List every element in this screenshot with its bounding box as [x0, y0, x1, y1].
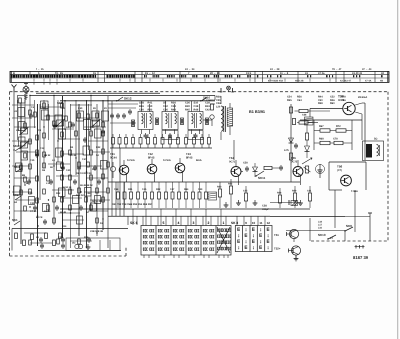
svg-text:R67: R67 — [319, 125, 324, 128]
svg-text:19 b: 19 b — [246, 72, 252, 75]
svg-text:SK3: SK3 — [14, 165, 20, 169]
switch SK10b — [200, 96, 211, 102]
svg-text:28.5mA: 28.5mA — [358, 96, 367, 99]
electrolytic C80 — [316, 164, 325, 178]
chassis border dashed bottom-right — [311, 240, 388, 242]
svg-text:12: 12 — [267, 221, 271, 225]
svg-text:3B 52: 3B 52 — [44, 154, 51, 157]
svg-text:11 ← 8: 11 ← 8 — [280, 72, 289, 75]
svg-text:46: 46 — [50, 166, 53, 169]
svg-text:38 52 38: 38 52 38 — [62, 186, 72, 189]
svg-text:C64: C64 — [297, 99, 302, 102]
output filter box — [12, 229, 128, 251]
svg-text:00 38: 00 38 — [70, 154, 77, 157]
svg-text:5Ω: 5Ω — [374, 138, 377, 141]
svg-text:78 ← 47: 78 ← 47 — [332, 68, 342, 71]
svg-text:C15: C15 — [30, 159, 35, 162]
IF label columns — [139, 102, 210, 112]
svg-text:R42: R42 — [148, 108, 153, 111]
svg-text:0.7mA: 0.7mA — [127, 159, 135, 162]
svg-text:f ← 15: f ← 15 — [36, 68, 44, 71]
svg-text:L9: L9 — [52, 159, 55, 162]
svg-text:C9: C9 — [38, 129, 42, 132]
switch SK1 — [12, 218, 20, 225]
output terminals — [355, 245, 365, 249]
svg-text:8.79 B3B 45A: 8.79 B3B 45A — [268, 79, 283, 82]
svg-text:3: 3 — [193, 221, 195, 225]
transistor T1 labels — [110, 152, 135, 162]
bus second rail — [60, 100, 215, 102]
wire IF out — [203, 119, 212, 121]
svg-text:C78: C78 — [333, 138, 338, 141]
tuning scale band — [10, 71, 389, 82]
svg-text:R58: R58 — [277, 192, 282, 195]
jack wiring — [270, 190, 372, 241]
svg-text:T52+: T52+ — [274, 247, 281, 251]
table SK6 pins — [144, 255, 228, 258]
transistor T51 — [287, 229, 299, 242]
svg-text:L18: L18 — [318, 221, 323, 224]
wire — [286, 230, 345, 232]
tuner small parts — [13, 95, 109, 245]
svg-text:20 ← 30: 20 ← 30 — [210, 72, 220, 75]
svg-text:R4: R4 — [70, 146, 74, 149]
transistor T2 labels — [148, 152, 171, 162]
svg-text:R51 T52 T58 F588 R55 R54 R58 R: R51 T52 T58 F588 R55 R54 R58 R57 — [112, 203, 153, 206]
switch SK12 — [116, 97, 132, 102]
svg-text:56 51 48: 56 51 48 — [92, 200, 102, 203]
svg-text:52: 52 — [86, 211, 89, 214]
svg-text:T57: T57 — [338, 95, 344, 99]
antenna — [12, 85, 17, 119]
svg-text:R22: R22 — [96, 146, 101, 149]
amp label columns — [216, 96, 346, 109]
svg-text:SK12: SK12 — [124, 97, 132, 101]
svg-text:0C75: 0C75 — [291, 160, 298, 163]
IF transformer S11 — [188, 101, 203, 140]
tuner filter boxes — [14, 96, 109, 225]
chassis border dashed bottom-left — [10, 255, 127, 257]
svg-text:ET: ET — [330, 237, 334, 240]
svg-text:C8 48: C8 48 — [44, 210, 51, 213]
svg-text:C44: C44 — [86, 192, 91, 195]
IF inter-stage parts — [108, 108, 209, 127]
svg-text:C21: C21 — [30, 202, 35, 205]
table feed wires — [128, 209, 265, 226]
preamp coupling network — [284, 104, 330, 165]
svg-text:4: 4 — [178, 221, 180, 225]
svg-text:SK2: SK2 — [13, 193, 19, 197]
table SK6 header — [130, 221, 225, 225]
interstage parts — [264, 165, 293, 171]
driver resistors R67 R72 — [300, 120, 362, 150]
svg-text:C58: C58 — [243, 162, 248, 165]
transistor T41 — [119, 160, 129, 182]
svg-text:R6: R6 — [42, 169, 46, 172]
wire mixer-IF — [108, 103, 138, 105]
svg-text:24 ← 28: 24 ← 28 — [270, 68, 280, 71]
svg-text:C55: C55 — [243, 190, 248, 193]
svg-text:8mA: 8mA — [196, 159, 202, 162]
svg-text:48: 48 — [36, 236, 39, 239]
IF transformer S9 — [162, 101, 178, 140]
svg-text:T56: T56 — [337, 165, 343, 169]
svg-text:24 ← 34: 24 ← 34 — [185, 68, 195, 71]
IF bias resistor row — [110, 134, 212, 148]
output vertical rail — [364, 103, 366, 160]
oscillator coil S13 — [221, 96, 233, 140]
svg-text:8F45: 8F45 — [186, 156, 193, 160]
AGC bus — [60, 208, 310, 210]
svg-text:9: 9 — [245, 221, 247, 225]
svg-text:C20: C20 — [28, 192, 33, 195]
svg-text:C7 84: C7 84 — [30, 210, 37, 213]
transistor T42 — [147, 159, 157, 182]
svg-text:R28 52: R28 52 — [76, 194, 84, 197]
svg-text:C40: C40 — [66, 169, 71, 172]
svg-text:15 ← 12: 15 ← 12 — [145, 72, 155, 75]
svg-text:41 40 41: 41 40 41 — [352, 72, 363, 75]
svg-text:T51: T51 — [274, 233, 279, 237]
tuner section rail wires — [12, 96, 124, 248]
svg-text:C68: C68 — [302, 114, 307, 117]
svg-text:C34: C34 — [90, 126, 95, 129]
top supply bus — [30, 95, 215, 97]
svg-text:C61: C61 — [307, 190, 312, 193]
svg-text:28: 28 — [93, 107, 96, 110]
svg-text:R52: R52 — [156, 188, 161, 191]
svg-text:L17: L17 — [318, 224, 323, 227]
svg-text:f ← 15: f ← 15 — [55, 72, 63, 75]
svg-text:R46: R46 — [194, 108, 199, 111]
switch SK5 — [57, 102, 63, 105]
svg-text:4BB 2B: 4BB 2B — [295, 79, 304, 82]
svg-text:SK 6: SK 6 — [130, 221, 138, 225]
transistor T54 — [229, 156, 241, 185]
diode GR1 — [110, 162, 115, 178]
transistor T56 — [329, 162, 366, 193]
table SK8-12 header — [231, 221, 270, 225]
svg-text:0.7mA: 0.7mA — [163, 159, 171, 162]
T57 base wire — [310, 108, 343, 110]
svg-text:48 46 38 52: 48 46 38 52 — [80, 184, 93, 187]
svg-text:S4: S4 — [14, 201, 18, 204]
switch feed bus — [108, 215, 270, 217]
svg-text:R8 C2 R9 C26: R8 C2 R9 C26 — [76, 172, 92, 175]
svg-text:SK9: SK9 — [346, 224, 352, 228]
svg-text:SK5: SK5 — [57, 102, 63, 105]
chassis border dashed left — [9, 92, 11, 256]
IF transformer S7 — [138, 101, 153, 139]
svg-text:R68: R68 — [319, 138, 324, 141]
svg-text:R45: R45 — [185, 108, 190, 111]
svg-text:C56: C56 — [114, 188, 119, 191]
svg-text:29: 29 — [104, 107, 107, 110]
capacitor C58 — [262, 200, 300, 211]
svg-text:0C71: 0C71 — [229, 160, 236, 163]
svg-text:C47: C47 — [170, 188, 175, 191]
svg-text:2: 2 — [208, 221, 210, 225]
svg-text:C45: C45 — [142, 188, 147, 191]
switch SK9 — [344, 224, 355, 241]
svg-text:47 ← 44: 47 ← 44 — [362, 68, 372, 71]
coupling cap C58 — [241, 162, 249, 173]
loudspeaker — [363, 138, 384, 161]
volume control chain — [298, 114, 313, 178]
switch SK2 — [13, 193, 21, 200]
svg-text:1: 1 — [223, 221, 225, 225]
svg-text:405μF: 405μF — [262, 208, 269, 211]
emitter bus — [108, 181, 300, 183]
pickup head — [206, 99, 215, 126]
svg-text:8B: 8B — [22, 174, 25, 177]
audio bias resistors — [208, 179, 312, 208]
transistor T57 — [338, 95, 367, 115]
switch table SK8-12 — [235, 226, 272, 252]
svg-text:R44: R44 — [171, 108, 176, 111]
svg-text:11: 11 — [259, 221, 263, 225]
svg-text:43 2B3 47: 43 2B3 47 — [340, 79, 352, 82]
svg-text:54: 54 — [96, 154, 99, 157]
svg-text:C49: C49 — [198, 188, 203, 191]
svg-text:C37: C37 — [82, 158, 87, 161]
svg-text:U1: U1 — [14, 110, 18, 113]
svg-text:5: 5 — [163, 221, 165, 225]
switch SK3 — [14, 165, 22, 172]
transistor T3 labels — [186, 152, 202, 162]
svg-text:R51: R51 — [128, 188, 133, 191]
svg-text:SK11: SK11 — [258, 176, 266, 180]
page right edge — [397, 0, 399, 339]
svg-text:8187 39: 8187 39 — [353, 255, 369, 260]
svg-text:R60: R60 — [330, 102, 335, 105]
svg-text:R24: R24 — [92, 168, 97, 171]
svg-text:SK4: SK4 — [13, 144, 19, 148]
scale legend text above band — [36, 68, 372, 71]
svg-text:R55: R55 — [287, 99, 292, 102]
svg-text:84 C8: 84 C8 — [36, 216, 43, 219]
transistor T55 — [291, 156, 303, 185]
dial lamp — [220, 86, 234, 92]
svg-text:L20: L20 — [216, 105, 221, 108]
switch SK4 — [13, 144, 21, 151]
svg-text:R58: R58 — [318, 102, 323, 105]
svg-text:T54: T54 — [229, 156, 234, 160]
svg-text:R18: R18 — [84, 236, 89, 239]
svg-text:SK10: SK10 — [318, 233, 326, 237]
svg-text:B: B — [13, 72, 15, 75]
svg-text:T-56A: T-56A — [351, 190, 358, 193]
svg-text:R54: R54 — [184, 188, 189, 191]
svg-text:C3: C3 — [31, 106, 35, 109]
switch SK10 — [318, 233, 336, 240]
svg-text:0C72: 0C72 — [338, 99, 345, 102]
svg-text:R12: R12 — [56, 192, 61, 195]
svg-text:R52: R52 — [228, 183, 233, 186]
transistor T52 — [289, 246, 301, 261]
svg-text:(C?): (C?) — [337, 169, 342, 172]
svg-text:L16: L16 — [318, 227, 323, 230]
transistor T43 — [175, 158, 185, 182]
svg-text:R59: R59 — [292, 190, 297, 193]
lower resistor row — [112, 182, 208, 208]
svg-text:C30: C30 — [78, 107, 83, 110]
svg-text:B1 B3/91: B1 B3/91 — [249, 110, 265, 114]
svg-text:L11: L11 — [46, 182, 51, 185]
tuner labels — [14, 106, 107, 239]
svg-text:10: 10 — [252, 221, 256, 225]
svg-text:SK1: SK1 — [12, 218, 18, 222]
svg-text:219/010: 219/010 — [206, 99, 215, 102]
svg-text:4.7k: 4.7k — [284, 149, 289, 152]
svg-text:47 2a: 47 2a — [318, 72, 325, 75]
switch SK11 — [255, 171, 265, 180]
svg-text:48 46: 48 46 — [60, 211, 67, 214]
ferrite rod antenna — [23, 84, 29, 101]
svg-text:C2B 52B 4B: C2B 52B 4B — [90, 230, 103, 233]
wire preamp-driver — [290, 165, 292, 182]
svg-text:T55: T55 — [291, 156, 296, 160]
switch table SK6 — [141, 226, 231, 256]
svg-text:R14: R14 — [62, 225, 67, 228]
svg-text:SK 8: SK 8 — [231, 221, 238, 225]
svg-text:C42: C42 — [205, 108, 210, 111]
svg-text:R72: R72 — [336, 125, 341, 128]
scale pointer marks — [34, 82, 57, 84]
chassis border dashed top — [10, 91, 389, 93]
svg-text:C18: C18 — [24, 182, 29, 185]
wire audio coupling — [303, 171, 318, 173]
diode GR4 — [253, 163, 258, 177]
ground symbols — [224, 200, 303, 207]
svg-text:C12: C12 — [40, 147, 45, 150]
svg-text:0C44: 0C44 — [110, 156, 117, 160]
wire top bus to lamp — [214, 96, 216, 101]
svg-text:8F45: 8F45 — [148, 156, 155, 160]
svg-text:4B: 4B — [380, 79, 383, 82]
svg-text:47 4A: 47 4A — [365, 79, 372, 82]
chassis border dashed right — [387, 92, 389, 241]
svg-text:R50: R50 — [217, 186, 222, 189]
svg-text:dio: dio — [72, 242, 76, 245]
